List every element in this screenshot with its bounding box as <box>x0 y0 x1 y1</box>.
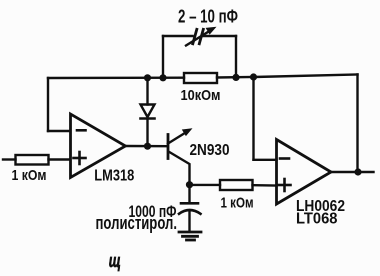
wire U2 minus input horizontal <box>254 159 277 161</box>
capacitor C1 adjustment arrow <box>186 27 217 46</box>
op-amp U1 minus sign <box>77 129 86 132</box>
op-amp U2 plus sign <box>279 179 291 191</box>
value label 1 кОм (R1) <box>12 167 47 184</box>
node junction (output) <box>354 168 361 175</box>
svg-text:LT068: LT068 <box>296 211 338 228</box>
node junction (U2 minus riser) <box>250 73 257 80</box>
svg-text:полистирол.: полистирол. <box>96 213 178 233</box>
svg-text:2N930: 2N930 <box>190 142 230 159</box>
node junction (cap loop left) <box>159 74 166 81</box>
op-amp U2 LH0062 <box>277 140 332 205</box>
capacitor C2 1000пФ <box>179 203 201 214</box>
wire top bus right segment <box>254 75 358 78</box>
value label 1000пФ (C2) <box>129 203 177 221</box>
wire diode bottom lead <box>146 119 148 144</box>
wire diode top lead <box>146 78 148 105</box>
figure label щ <box>109 250 121 271</box>
label 2N930 (Q1) <box>190 142 230 159</box>
ground <box>179 232 201 240</box>
wire C2 bottom lead <box>188 211 190 231</box>
label LH0062 (U2) <box>296 198 345 215</box>
node junction (cap loop right) <box>232 74 239 81</box>
wire cap loop top right segment <box>204 35 237 37</box>
op-amp U1 plus sign <box>74 152 86 164</box>
op-amp U1 LM318 <box>71 114 126 178</box>
resistor R1 1 kOm (input) <box>16 155 49 165</box>
wire cap loop right vertical <box>235 36 237 78</box>
op-amp U2 minus sign <box>280 157 289 160</box>
wire cap loop top left segment <box>163 35 193 37</box>
capacitor C1 variable 2-10 пФ plates <box>193 29 204 44</box>
wire U2 minus input riser vertical <box>252 77 254 160</box>
wire cap loop left vertical <box>162 36 164 78</box>
value label полистирол. (C2) <box>96 213 178 233</box>
svg-text:1 кОм: 1 кОм <box>12 167 47 184</box>
resistor R2 10кОм <box>184 73 217 83</box>
wire U2 output <box>331 171 374 173</box>
svg-text:щ: щ <box>109 250 121 271</box>
transistor Q1 2N930 base bar <box>167 135 170 159</box>
svg-text:1 кОм: 1 кОм <box>221 195 254 212</box>
wire feedback into minus input <box>48 130 70 132</box>
wire top bus left segment <box>48 76 184 79</box>
wire output feedback vertical <box>356 75 358 173</box>
wire U1 output to transistor base <box>126 145 167 148</box>
node junction (emitter / C2 / R3) <box>186 181 193 188</box>
value label 2 - 10 пФ (C1) <box>178 6 238 27</box>
wire top bus mid segment <box>217 76 254 79</box>
value label 10кОм (R2) <box>181 87 221 104</box>
resistor R3 1 кОм <box>220 180 253 190</box>
node junction (diode top) <box>144 74 151 81</box>
wire node to R3 <box>190 184 221 186</box>
wire R1 to op-amp + input <box>49 158 71 160</box>
wire input stub <box>3 158 16 160</box>
svg-text:10кОм: 10кОм <box>181 87 221 104</box>
transistor Q1 collector lead <box>169 152 190 182</box>
label LT068 (U2) <box>296 211 338 228</box>
node junction (U1 output / base) <box>144 143 151 150</box>
value label 1 кОм (R3) <box>221 195 254 212</box>
diode VD1 <box>141 105 155 119</box>
wire C2 top lead <box>188 188 190 202</box>
wire R3 to op-amp U2 plus input <box>253 184 277 187</box>
svg-text:LM318: LM318 <box>94 168 134 185</box>
label LM318 <box>94 168 134 185</box>
wire feedback vertical <box>47 78 49 131</box>
transistor Q1 emitter arrow <box>168 128 193 143</box>
svg-text:2 – 10 пФ: 2 – 10 пФ <box>178 6 238 27</box>
